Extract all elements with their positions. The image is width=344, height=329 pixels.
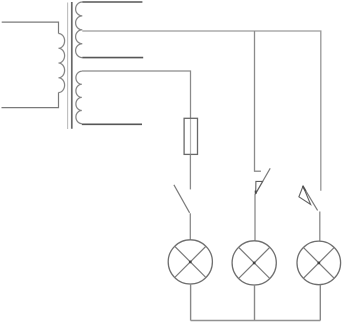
switch SW2 blade arrowhead bbox=[256, 181, 263, 193]
transformer T1 secondary winding S1 (center-tapped) bbox=[76, 2, 83, 58]
switch SW1 blade bbox=[174, 185, 190, 213]
switch SW2 blade bbox=[256, 168, 271, 193]
wire switch SW3 to lamp E3 bbox=[319, 212, 321, 241]
fuse F1 bbox=[184, 118, 197, 154]
wire primary top lead bbox=[2, 22, 59, 33]
transformer T1 primary winding bbox=[59, 34, 65, 93]
wire switch SW2 to lamp E2 bbox=[254, 194, 256, 241]
wire switch SW1 to lamp E1 bbox=[189, 213, 191, 240]
wire bottom bus bbox=[191, 320, 321, 322]
wire S1 top terminal stub bbox=[82, 1, 142, 3]
switch SW3 blade bbox=[303, 186, 318, 210]
wire lamp E2 to bottom bus bbox=[254, 285, 256, 321]
wire S1 bottom terminal stub bbox=[82, 57, 143, 59]
wire S2 top terminal to fuse F1 bbox=[82, 71, 191, 118]
switch SW3 blade arrowhead bbox=[299, 186, 311, 205]
wire lamp E3 to bottom bus bbox=[319, 285, 321, 321]
lamp E2 bbox=[232, 241, 276, 285]
transformer T1 core bbox=[68, 2, 72, 129]
wire fuse F1 to switch SW1 bbox=[189, 154, 191, 189]
lamp E1 bbox=[168, 240, 212, 284]
wire S2 bottom terminal stub bbox=[82, 123, 142, 125]
switch SW2 top contact foot bbox=[255, 170, 261, 172]
lamp E3 bbox=[297, 241, 341, 285]
wire lamp E1 to bottom bus bbox=[190, 284, 192, 321]
wire branch 2 from tap junction bbox=[254, 31, 256, 171]
wire S1 center tap feeding branch 3 bbox=[82, 31, 320, 191]
wire primary bottom lead bbox=[2, 93, 59, 108]
transformer T1 secondary winding S2 bbox=[76, 71, 82, 123]
